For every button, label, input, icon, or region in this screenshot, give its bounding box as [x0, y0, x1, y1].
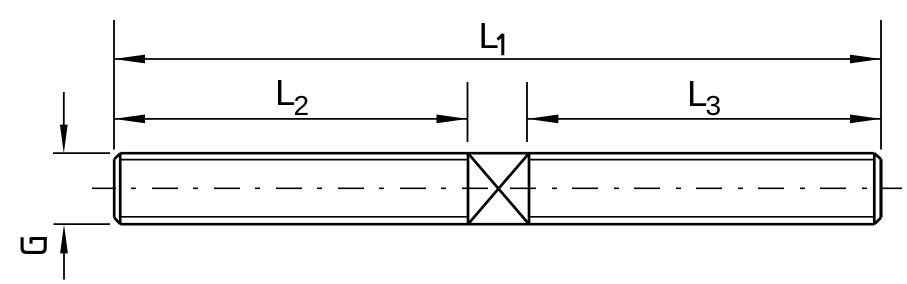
svg-text:3: 3	[706, 90, 722, 121]
svg-text:2: 2	[294, 90, 310, 121]
svg-text:L: L	[479, 15, 499, 56]
svg-text:L: L	[687, 73, 707, 114]
svg-text:L: L	[275, 72, 295, 113]
